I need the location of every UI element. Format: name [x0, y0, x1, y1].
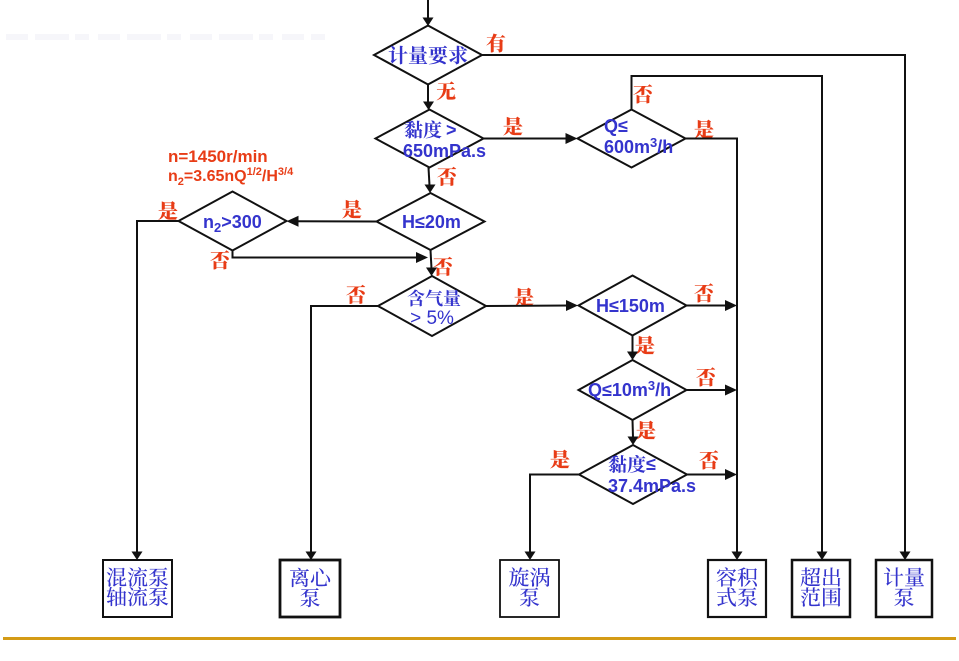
- faint ghost text line top-left: [6, 34, 325, 40]
- wire: D8 bottom to D9: [632, 420, 635, 438]
- wire: D9 left down to 旋涡泵 box: [530, 475, 579, 553]
- svg-text:>: >: [446, 120, 457, 140]
- svg-text:H≤150m: H≤150m: [596, 296, 665, 316]
- label 是 (D5 left): [158, 201, 177, 220]
- wire: D2 bottom to D4: [429, 168, 430, 186]
- label 否 (D7 right): [694, 283, 713, 302]
- svg-text:n2>300: n2>300: [203, 212, 262, 235]
- label 是 (D6 to D7): [514, 288, 533, 307]
- box B2 离心泵: [280, 560, 340, 617]
- label 否 (D2 down): [437, 167, 456, 186]
- box B4 容积式泵: [708, 560, 766, 617]
- svg-text:n=1450r/min: n=1450r/min: [168, 147, 268, 166]
- decision D8 Q≤10m3/h: [579, 360, 687, 420]
- wire: D7 bottom to D8: [632, 336, 634, 353]
- label 无: [437, 81, 456, 100]
- label 否 (D6 left): [346, 285, 365, 304]
- wire: D5 left down to 混流泵 box: [137, 221, 179, 553]
- box B3 旋涡泵: [500, 560, 559, 617]
- wire: D4 bottom to D6: [431, 250, 432, 269]
- label 否 (D5 bottom): [210, 250, 229, 269]
- wire: D3 top up right and down to 超出范围: [632, 76, 823, 553]
- label 有: [486, 33, 505, 52]
- svg-text:≤: ≤: [646, 454, 656, 474]
- svg-text:650mPa.s: 650mPa.s: [403, 141, 486, 161]
- wire: D7 right to 容积 column: [687, 305, 730, 307]
- box B1 混流泵/轴流泵: [103, 560, 172, 617]
- wire: D8 right to 容积 column: [687, 389, 730, 391]
- bottom gold divider: [3, 637, 956, 640]
- svg-text:> 5%: > 5%: [410, 308, 454, 329]
- decision D9 黏度≤37.4mPa.s: [579, 445, 687, 504]
- svg-text:600m3/h: 600m3/h: [604, 135, 673, 157]
- label 是 (D9 left): [550, 450, 569, 469]
- decision D3 Q≤600m3/h: [578, 110, 686, 168]
- box B5 超出范围: [792, 560, 850, 617]
- decision D2 黏度>650mPa.s: [376, 110, 484, 168]
- wire: D2 right to D3: [484, 138, 571, 140]
- svg-text:Q≤: Q≤: [604, 116, 628, 136]
- decision D1 计量要求: [374, 26, 482, 85]
- svg-text:H≤20m: H≤20m: [402, 212, 461, 232]
- wire: D1 bottom to D2: [427, 85, 429, 103]
- svg-text:37.4mPa.s: 37.4mPa.s: [608, 476, 696, 496]
- wire: D9 right to 容积 column: [687, 474, 730, 476]
- wire: D6 left down to 离心泵 box: [311, 306, 378, 553]
- decision D7 H≤150m: [579, 276, 687, 336]
- label 否 (D4 down): [433, 257, 452, 276]
- label 否 (D8 right): [696, 367, 715, 386]
- label 是 (D3 right): [694, 120, 713, 139]
- svg-text:n2=3.65nQ1/2/H3/4: n2=3.65nQ1/2/H3/4: [168, 166, 294, 188]
- wire: D3 right down to 容积式泵: [686, 139, 738, 553]
- wire: D5 bottom right to spine junction: [233, 251, 421, 258]
- svg-text:Q≤10m3/h: Q≤10m3/h: [588, 378, 671, 400]
- decision D5 n2>300: [179, 192, 287, 251]
- label 是 (D8 down): [636, 421, 655, 440]
- wire: D4 left to D5: [294, 220, 377, 222]
- decision D4 H≤20m: [377, 193, 485, 250]
- label 否 (D3 up): [633, 84, 652, 103]
- wire 有: D1 right to far-right column down to 计量泵: [482, 55, 905, 553]
- decision D6 含气量>5%: [378, 276, 486, 336]
- wire: top entry into D1: [427, 0, 429, 18]
- label 是 (D2 to D3): [503, 117, 522, 136]
- label 是 (D7 down): [635, 336, 654, 355]
- box B6 计量泵: [876, 560, 932, 617]
- label 否 (D9 right): [699, 450, 718, 469]
- wire: D6 right to D7: [486, 305, 570, 308]
- label 是 (D4 to D5): [342, 200, 361, 219]
